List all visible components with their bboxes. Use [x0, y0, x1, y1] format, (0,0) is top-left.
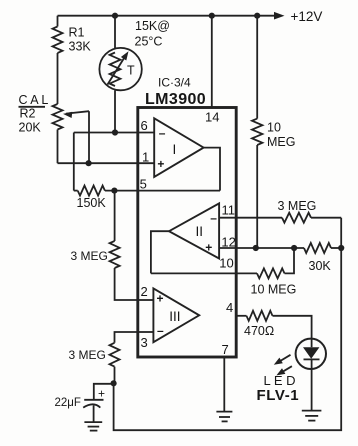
svg-text:L E D: L E D — [264, 373, 296, 388]
svg-text:22μF: 22μF — [55, 397, 81, 409]
LED D1 — [296, 339, 326, 411]
label 33K — [69, 39, 92, 53]
junction pin10riser/pin12 — [291, 245, 297, 251]
svg-text:I: I — [173, 142, 177, 157]
svg-text:10 MEG: 10 MEG — [251, 283, 297, 297]
svg-text:3 MEG: 3 MEG — [71, 249, 108, 263]
svg-text:3 MEG: 3 MEG — [69, 348, 106, 362]
wire pin12 row — [236, 247, 304, 249]
label R2 — [20, 107, 36, 121]
svg-text:7: 7 — [222, 342, 229, 357]
wire pin1 row — [58, 162, 138, 164]
svg-text:III: III — [169, 309, 180, 324]
resistor 470ohm — [236, 311, 311, 339]
svg-text:R2: R2 — [20, 107, 36, 121]
svg-text:R1: R1 — [69, 26, 85, 40]
junction 30K/right rail — [338, 245, 344, 251]
svg-text:5: 5 — [140, 177, 147, 192]
svg-text:33K: 33K — [69, 39, 92, 53]
label R1 — [69, 26, 85, 40]
label 30K — [309, 259, 332, 273]
pin label 4 — [226, 300, 233, 315]
pin label 10 — [219, 256, 233, 271]
wire op-amp II output to pin10 — [151, 231, 236, 273]
wire pin14 — [211, 16, 213, 108]
resistor 10MEG horizontal — [236, 248, 294, 278]
svg-text:C A L: C A L — [19, 93, 49, 107]
svg-text:+: + — [98, 387, 105, 401]
svg-text:+: + — [157, 292, 164, 306]
svg-text:II: II — [196, 224, 204, 239]
svg-text:–: – — [157, 324, 164, 338]
label 25C — [135, 35, 163, 49]
svg-text:T: T — [127, 64, 135, 78]
label +12V — [291, 9, 323, 24]
pin label 11 — [222, 203, 236, 218]
IC U1 LM3900 box — [138, 108, 236, 358]
junction pin14/rail — [209, 13, 215, 19]
resistor R1 — [53, 16, 63, 104]
svg-text:–: – — [159, 126, 166, 140]
junction thermistor/rail — [112, 13, 118, 19]
svg-text:IC·3/4: IC·3/4 — [158, 76, 191, 90]
resistor 3MEG feedback — [236, 213, 341, 223]
label LED — [264, 373, 296, 388]
svg-text:LM3900: LM3900 — [145, 91, 206, 108]
junction cap node — [111, 380, 117, 386]
label 3MEG upper — [71, 249, 108, 263]
junction 10MEG/rail — [254, 13, 260, 19]
svg-text:FLV-1: FLV-1 — [257, 387, 300, 404]
resistor 10MEG vertical — [252, 16, 262, 248]
svg-text:MEG: MEG — [267, 135, 295, 149]
junction 150K/pin5/3MEG — [111, 188, 117, 194]
label CAL — [19, 93, 49, 107]
pin label 14 — [205, 109, 219, 124]
LED light arrow 2 — [276, 366, 292, 375]
svg-text:+12V: +12V — [291, 9, 323, 24]
label 3MEG feedback — [278, 199, 317, 213]
wire op-amp I output to pin5 — [138, 148, 220, 191]
svg-text:3: 3 — [141, 335, 148, 350]
label 22uF — [55, 397, 81, 409]
label 10MEG vertical — [267, 121, 295, 150]
pin label 3 — [141, 335, 148, 350]
svg-text:–: – — [210, 211, 217, 225]
svg-text:30K: 30K — [309, 259, 332, 273]
wire pin6 loop down — [73, 133, 75, 191]
svg-text:4: 4 — [226, 300, 233, 315]
label FLV-1 — [257, 387, 300, 404]
ground pin7 — [216, 412, 232, 422]
svg-text:14: 14 — [205, 109, 219, 124]
pin label 5 — [140, 177, 147, 192]
label 470ohm — [244, 324, 274, 338]
svg-text:3 MEG: 3 MEG — [278, 199, 317, 213]
wire bottom rail — [114, 218, 342, 431]
label cap plus — [98, 387, 105, 401]
label 10MEG horizontal — [251, 283, 297, 297]
wire thermistor to pin6 row — [114, 90, 116, 132]
pin label 6 — [141, 118, 148, 133]
resistor 3MEG upper — [110, 191, 138, 300]
ground LED — [302, 411, 322, 421]
label 20K — [19, 121, 42, 135]
svg-text:150K: 150K — [77, 196, 107, 210]
svg-text:1: 1 — [142, 149, 149, 164]
svg-text:2: 2 — [141, 284, 148, 299]
junction wiper/pin1 — [86, 160, 92, 166]
svg-text:15K@: 15K@ — [135, 19, 170, 33]
svg-text:11: 11 — [222, 203, 236, 218]
svg-text:10: 10 — [267, 121, 281, 135]
svg-text:+: + — [157, 157, 164, 171]
wire pin6 row — [74, 132, 138, 134]
svg-text:25°C: 25°C — [135, 35, 163, 49]
label 15K@ — [135, 19, 170, 33]
svg-text:10: 10 — [219, 256, 233, 271]
label IC-3/4 — [158, 76, 191, 90]
+12V arrow — [274, 12, 285, 20]
op-amp III — [138, 288, 199, 342]
svg-text:6: 6 — [141, 118, 148, 133]
potentiometer R2 — [53, 104, 63, 163]
R2 wiper arrow — [63, 111, 89, 163]
resistor 150K — [74, 186, 138, 196]
resistor 3MEG lower — [110, 343, 120, 384]
label 3MEG lower — [69, 348, 106, 362]
thermistor T — [99, 48, 141, 90]
svg-text:470Ω: 470Ω — [244, 324, 274, 338]
wire pin7 — [223, 357, 225, 412]
wire +12V supply rail — [58, 15, 277, 17]
LED light arrow 1 — [274, 355, 291, 365]
pin label 1 — [142, 149, 149, 164]
wire pin3 row — [115, 332, 138, 343]
wire rail to thermistor — [114, 16, 116, 49]
pin label 7 — [222, 342, 229, 357]
pin label 12 — [221, 235, 235, 250]
resistor 30K — [304, 243, 341, 253]
svg-text:+: + — [205, 241, 212, 255]
label 150K — [77, 196, 107, 210]
capacitor C1 22uF — [83, 384, 113, 422]
op-amp I — [138, 118, 204, 177]
svg-text:20K: 20K — [19, 121, 42, 135]
op-amp II — [169, 203, 236, 258]
junction 10MEG/pin12 — [253, 245, 259, 251]
label LM3900 — [145, 91, 206, 108]
ground cap — [84, 422, 102, 431]
pin label 2 — [141, 284, 148, 299]
junction thermistor/pin6 — [112, 129, 118, 135]
